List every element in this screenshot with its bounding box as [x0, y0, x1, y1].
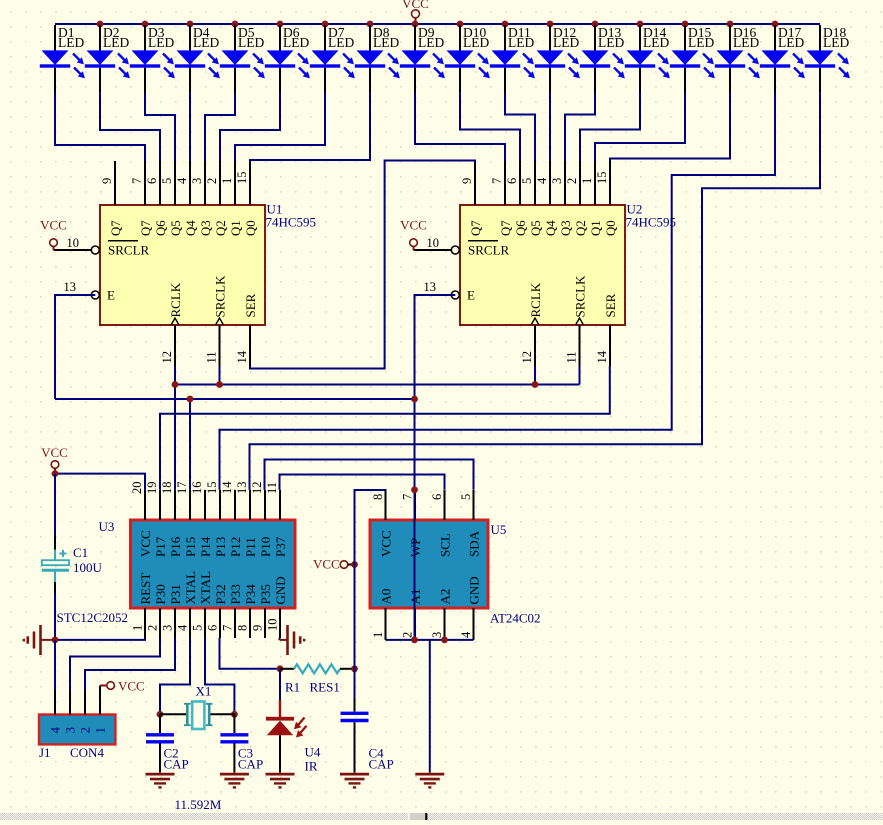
wire D15 to U2 pin 1 [595, 92, 685, 161]
shift register U1 74HC595 body [100, 205, 265, 325]
U5 pin 7 (WP) stub [401, 490, 424, 557]
U2 pin 2 (Q2) stub [565, 161, 588, 236]
U3 pin 12 (P10) stub [250, 482, 273, 558]
svg-text:P32: P32 [213, 584, 228, 604]
ground symbol under C2 [146, 772, 175, 788]
svg-text:Q3: Q3 [559, 220, 573, 236]
svg-text:A2: A2 [438, 589, 453, 605]
U5 pin 1 (A0) stub [371, 589, 394, 640]
wire D18 to U3 pin 13 [250, 92, 821, 490]
svg-text:14: 14 [595, 350, 609, 363]
svg-text:11.592M: 11.592M [175, 797, 222, 812]
svg-text:Q1: Q1 [589, 220, 603, 236]
LED D5 [220, 25, 265, 92]
svg-text:LED: LED [643, 35, 669, 50]
junction dots on clock net [172, 381, 539, 388]
junction dot VCC at U5 [351, 561, 358, 568]
junction dot U5 pin3 on rail [441, 637, 448, 644]
LED D14 [625, 25, 670, 92]
wire U1 pin11 down to clock net [219, 366, 221, 385]
wire VCC node down to C1 [54, 474, 56, 535]
svg-text:E: E [467, 288, 475, 303]
svg-text:C1: C1 [73, 545, 88, 560]
U3 pin 14 (P12) stub [220, 481, 243, 557]
svg-text:VCC: VCC [40, 218, 67, 233]
svg-text:4: 4 [535, 177, 549, 184]
svg-text:13: 13 [64, 280, 77, 294]
svg-text:1: 1 [580, 178, 594, 184]
LED D6 [265, 25, 310, 92]
svg-text:XTAL: XTAL [198, 571, 213, 605]
wire D9 to U2 pin 7 [415, 92, 505, 161]
svg-text:4: 4 [459, 631, 473, 638]
J1 pin 2 stub [78, 690, 93, 734]
svg-text:CON4: CON4 [70, 745, 104, 760]
wire clock net U1.12-U1.11-U2.12-U2.11 [175, 384, 580, 386]
U2 pin 13 E with bubble [424, 280, 476, 303]
svg-text:5: 5 [520, 178, 534, 184]
svg-text:P31: P31 [168, 584, 183, 604]
wire U5 rail down to ground [429, 640, 431, 772]
svg-text:9: 9 [460, 178, 474, 184]
svg-text:6: 6 [206, 625, 220, 631]
svg-text:19: 19 [145, 482, 159, 495]
wire U2 pin12 down to clock net [534, 366, 536, 385]
svg-text:6: 6 [430, 494, 444, 500]
U3 pin 16 (P14) stub [190, 482, 213, 558]
U2 pin 14 (SER) stub [595, 293, 618, 366]
svg-text:Q5: Q5 [529, 220, 543, 236]
svg-text:P34: P34 [243, 584, 258, 605]
svg-text:P13: P13 [213, 537, 228, 557]
U3 pin 19 (P17) stub [145, 482, 168, 558]
svg-text:R1: R1 [285, 680, 300, 695]
U5 pin 5 (SDA) stub [459, 490, 482, 557]
svg-text:Q7: Q7 [499, 220, 513, 236]
wire ground rail down to J1 pin 4 [54, 640, 56, 690]
junction dot E net at pin17 branch [187, 396, 194, 403]
wire D7 to U1 pin 1 [235, 92, 325, 161]
svg-text:VCC: VCC [41, 445, 68, 460]
svg-text:15: 15 [595, 172, 609, 185]
junction dot VCC/C1 node [52, 470, 59, 477]
U2 pin 9 (Q7) stub [460, 161, 483, 236]
svg-text:7: 7 [221, 625, 235, 631]
capacitor C2 CAP [146, 714, 174, 771]
microcontroller U3 STC12C2052 body [131, 520, 296, 608]
U3 pin 7 (P33) stub [221, 584, 244, 638]
resistor R1 RES1 [280, 664, 355, 673]
svg-text:RCLK: RCLK [168, 282, 183, 317]
svg-text:7: 7 [401, 494, 415, 500]
svg-text:3: 3 [430, 632, 444, 638]
svg-text:Q6: Q6 [154, 220, 168, 236]
svg-text:Q3: Q3 [199, 220, 213, 236]
svg-text:CAP: CAP [164, 757, 189, 772]
wire U3 pin19 to U2 SER pin14 [160, 366, 610, 490]
svg-text:LED: LED [823, 35, 849, 50]
svg-text:74HC595: 74HC595 [626, 215, 677, 230]
svg-text:P15: P15 [183, 537, 198, 557]
svg-text:IR: IR [305, 759, 318, 774]
junction dot U5 WP pin top [411, 486, 418, 493]
J1 pin 4 stub [48, 690, 63, 734]
svg-text:SRCLK: SRCLK [213, 275, 228, 318]
svg-text:U5: U5 [491, 522, 507, 537]
wire U2 E to WP column [415, 295, 456, 399]
wire U3 pin 10 to right ground [279, 638, 281, 640]
svg-text:LED: LED [688, 35, 714, 50]
U5 pin 6 (SCL) stub [430, 490, 453, 557]
svg-text:VCC: VCC [138, 530, 153, 557]
LED D11 [490, 25, 535, 92]
junction dot crystal right node [231, 711, 238, 718]
svg-text:1: 1 [93, 727, 108, 734]
svg-text:18: 18 [160, 482, 174, 495]
U2 pin 6 (Q6) stub [505, 161, 528, 236]
U5 pin 3 (A2) stub [430, 589, 453, 640]
svg-text:U4: U4 [305, 745, 321, 760]
U1 pin 11 (SRCLK) stub [205, 275, 228, 366]
svg-text:7: 7 [130, 178, 144, 184]
svg-text:LED: LED [553, 35, 579, 50]
wire E-net branch down to U3 pin17 [189, 399, 191, 490]
junction dot crystal left node [157, 711, 164, 718]
svg-text:11: 11 [265, 482, 279, 494]
LED D7 [310, 25, 355, 92]
junction dot R1/U4 node [277, 665, 284, 672]
U3 pin 13 (P11) stub [235, 482, 258, 558]
junction dot E net at WP column [411, 396, 418, 403]
U3 pin 5 (XTAL) stub [191, 571, 214, 638]
U2 pin 10 SRCLR with bubble and VCC [400, 218, 509, 258]
svg-text:14: 14 [220, 481, 234, 494]
svg-text:SRCLR: SRCLR [468, 243, 510, 258]
svg-text:A0: A0 [379, 589, 394, 605]
wire U3 pin12 to U5 SDA pin5 [265, 460, 474, 490]
wire WP column over U5 (redraw over box) [414, 490, 416, 640]
U1 pin 1 (Q1) stub [220, 161, 243, 236]
U2 pin 7 (Q7) stub [490, 161, 513, 236]
U2 pin 15 (Q0) stub [595, 161, 618, 236]
U3 pin 10 (GND) stub [266, 576, 289, 638]
svg-text:Q7: Q7 [469, 220, 483, 236]
svg-text:STC12C2052: STC12C2052 [57, 610, 129, 625]
svg-text:P37: P37 [273, 536, 288, 557]
junction dot ground rail [52, 637, 59, 644]
LED D17 [760, 25, 805, 92]
junction dots on VCC bus [97, 21, 779, 28]
wire D17 to U3 pin 15 [220, 92, 776, 490]
svg-text:LED: LED [418, 35, 444, 50]
shift register U2 74HC595 body [460, 205, 625, 325]
svg-text:Q6: Q6 [514, 220, 528, 236]
svg-text:Q7: Q7 [139, 220, 153, 236]
U1 pin 10 SRCLR with bubble and VCC [40, 218, 149, 258]
U2 pin 1 (Q1) stub [580, 161, 603, 236]
svg-text:9: 9 [251, 625, 265, 631]
svg-text:P10: P10 [258, 537, 273, 557]
svg-text:Q2: Q2 [214, 220, 228, 236]
LED D3 [130, 25, 175, 92]
LED D16 [715, 25, 760, 92]
ground symbol left of U3 [24, 625, 52, 655]
svg-text:3: 3 [190, 178, 204, 184]
svg-text:P11: P11 [243, 537, 258, 557]
U3 pin 18 (P16) stub [160, 482, 183, 558]
svg-text:J1: J1 [39, 745, 51, 760]
svg-text:Q5: Q5 [169, 220, 183, 236]
svg-text:74HC595: 74HC595 [266, 215, 317, 230]
svg-text:P30: P30 [153, 584, 168, 604]
svg-text:2: 2 [146, 625, 160, 631]
wire D8 to U1 pin 15 [250, 92, 370, 161]
LED D9 [400, 25, 445, 92]
wire U3 pin5 (XTAL) to crystal right node [205, 638, 234, 714]
svg-text:10: 10 [266, 619, 280, 632]
wire D2 to U1 pin 6 [100, 92, 160, 161]
LED D8 [355, 25, 400, 92]
wire ground rail to U3 pin 1 (REST) [52, 638, 145, 640]
svg-text:Q0: Q0 [244, 220, 258, 236]
wire U5 bottom rail A0-A1-A2-GND [386, 639, 474, 641]
svg-text:Q0: Q0 [604, 220, 618, 236]
wire U1 pin12 down to U3 pin18 [174, 366, 176, 490]
svg-text:VCC: VCC [379, 530, 394, 557]
svg-text:LED: LED [778, 35, 804, 50]
svg-text:REST: REST [138, 573, 153, 605]
U5 pin 8 (VCC) stub [371, 490, 394, 557]
svg-text:100U: 100U [73, 560, 103, 575]
infrared diode U4 IR [266, 669, 307, 772]
ground symbol right of U3 [280, 625, 305, 655]
U2 pin 3 (Q3) stub [550, 161, 573, 236]
ground symbol under U4 [266, 772, 295, 788]
U3 pin 17 (P15) stub [175, 482, 198, 558]
LED D4 [175, 25, 220, 92]
svg-text:P17: P17 [153, 536, 168, 557]
U2 pin 11 (SRCLK) stub [565, 275, 588, 366]
capacitor C4 CAP [341, 699, 369, 772]
svg-text:U3: U3 [99, 519, 115, 534]
wire D6 to U1 pin 2 [220, 92, 280, 161]
svg-text:LED: LED [238, 35, 264, 50]
svg-text:SCL: SCL [438, 533, 453, 557]
U1 pin 4 (Q4) stub [175, 161, 198, 236]
junction dot U5 pin2 on rail [411, 637, 418, 644]
svg-text:2: 2 [78, 727, 93, 734]
svg-text:LED: LED [148, 35, 174, 50]
svg-text:GND: GND [273, 576, 288, 604]
svg-text:LED: LED [463, 35, 489, 50]
svg-text:4: 4 [176, 624, 190, 631]
U3 pin 9 (P35) stub [251, 584, 274, 638]
svg-text:VCC: VCC [400, 218, 427, 233]
power symbol VCC at U3 pin 20 [41, 445, 68, 474]
connector J1 CON4 body [39, 715, 115, 745]
svg-text:12: 12 [160, 351, 174, 364]
wire D14 to U2 pin 2 [580, 92, 640, 161]
svg-text:9: 9 [100, 178, 114, 184]
LED D12 [535, 25, 580, 92]
wire J1 pin3 to U3 pin2 [70, 638, 160, 690]
svg-text:3: 3 [550, 178, 564, 184]
svg-text:Q2: Q2 [574, 220, 588, 236]
crystal X1 [160, 702, 234, 730]
svg-text:P12: P12 [228, 537, 243, 557]
LED D15 [670, 25, 715, 92]
U1 pin 15 (Q0) stub [235, 161, 258, 236]
U2 pin 4 (Q4) stub [535, 161, 558, 236]
svg-text:3: 3 [161, 625, 175, 631]
svg-text:CAP: CAP [238, 757, 263, 772]
svg-text:Q7: Q7 [109, 220, 123, 236]
svg-text:LED: LED [193, 35, 219, 50]
svg-text:LED: LED [733, 35, 759, 50]
svg-text:CAP: CAP [369, 757, 394, 772]
svg-text:6: 6 [505, 178, 519, 184]
wire C1 to ground rail [54, 594, 56, 640]
svg-text:14: 14 [235, 350, 249, 363]
wire D16 to U2 pin 15 [610, 92, 730, 161]
svg-text:4: 4 [48, 727, 63, 734]
svg-text:SER: SER [243, 293, 258, 317]
wire VCC column to U5 pin 8 [355, 490, 386, 699]
wire U3 pin6 (P32) to R1/U4 node [220, 638, 281, 669]
wire D3 to U1 pin 5 [145, 92, 175, 161]
svg-text:12: 12 [250, 482, 264, 495]
power symbol VCC at U5 [313, 557, 355, 572]
U1 pin 9 (Q7) stub [100, 161, 123, 236]
J1 pin 3 stub [63, 690, 78, 734]
wire D4 to U1 pin 4 [189, 92, 191, 161]
svg-text:X1: X1 [196, 684, 212, 699]
U3 pin 3 (P31) stub [161, 584, 184, 638]
svg-text:11: 11 [565, 351, 579, 363]
svg-text:16: 16 [190, 482, 204, 495]
svg-text:7: 7 [490, 178, 504, 184]
svg-text:LED: LED [283, 35, 309, 50]
wire U2 pin11 down to clock net [579, 366, 581, 385]
svg-text:6: 6 [145, 178, 159, 184]
svg-text:RES1: RES1 [310, 680, 340, 695]
wire VCC to U3 pin 20 [55, 474, 145, 490]
LED D18 [805, 25, 850, 92]
eeprom U5 AT24C02 body [370, 520, 488, 608]
U3 pin 2 (P30) stub [146, 584, 169, 638]
U1 pin 14 (SER) stub [235, 293, 258, 366]
U3 pin 4 (XTAL) stub [176, 571, 199, 638]
svg-text:1: 1 [371, 632, 385, 638]
svg-text:LED: LED [508, 35, 534, 50]
U5 pin 2 (A1) stub [401, 589, 424, 640]
ground symbol under C3 [220, 772, 249, 788]
svg-text:P14: P14 [198, 536, 213, 557]
svg-text:15: 15 [235, 172, 249, 185]
svg-text:4: 4 [175, 177, 189, 184]
svg-text:2: 2 [565, 178, 579, 184]
U3 pin 11 (P37) stub [265, 482, 288, 557]
svg-text:LED: LED [598, 35, 624, 50]
wire D5 to U1 pin 3 [205, 92, 235, 161]
U1 pin 13 E with bubble [64, 280, 116, 303]
U3 pin 20 (VCC) stub [130, 482, 153, 558]
svg-text:20: 20 [130, 482, 144, 495]
svg-text:P16: P16 [168, 536, 183, 557]
capacitor C3 CAP [220, 714, 248, 771]
U5 pin 4 (GND) stub [459, 576, 482, 640]
svg-text:1: 1 [131, 625, 145, 631]
wire J1 pin2 to U3 pin3 [85, 638, 175, 690]
U3 pin 1 (REST) stub [131, 573, 154, 638]
U1 pin 2 (Q2) stub [205, 161, 228, 236]
wire D10 to U2 pin 6 [460, 92, 520, 161]
scrollbar track at bottom [0, 813, 883, 820]
svg-text:P35: P35 [258, 584, 273, 604]
svg-text:10: 10 [67, 236, 80, 250]
svg-text:RCLK: RCLK [528, 282, 543, 317]
wire D11 to U2 pin 5 [505, 92, 535, 161]
power symbol VCC (top bus) [402, 0, 429, 24]
svg-text:LED: LED [103, 35, 129, 50]
svg-text:E: E [107, 288, 115, 303]
svg-text:2: 2 [205, 178, 219, 184]
power symbol VCC at J1 pin 1 [100, 679, 145, 694]
junction dot R1 right at VCC column [351, 665, 358, 672]
svg-text:LED: LED [373, 35, 399, 50]
U1 pin 3 (Q3) stub [190, 161, 213, 236]
svg-text:VCC: VCC [313, 557, 340, 572]
LED D10 [445, 25, 490, 92]
ground symbol under C4 [340, 772, 369, 788]
svg-text:13: 13 [424, 280, 437, 294]
wire U1 E to E-net [55, 295, 95, 399]
U2 pin 5 (Q5) stub [520, 161, 543, 236]
svg-text:LED: LED [58, 35, 84, 50]
wire E net to U3 pin17 [55, 398, 415, 400]
svg-text:AT24C02: AT24C02 [490, 611, 541, 626]
svg-text:SER: SER [603, 293, 618, 317]
LED D2 [85, 25, 130, 92]
svg-text:SDA: SDA [467, 530, 482, 557]
svg-text:P33: P33 [228, 584, 243, 604]
svg-text:10: 10 [427, 236, 440, 250]
wire U3 pin4 (XTAL) to crystal left node [160, 638, 190, 714]
svg-text:XTAL: XTAL [183, 571, 198, 605]
wire VCC bus [55, 23, 820, 25]
U3 pin 8 (P34) stub [236, 584, 259, 638]
svg-text:15: 15 [205, 482, 219, 495]
wire U1 SER pin14 to U2 pin9 (cascade) [250, 161, 475, 369]
capacitor C1 100U (polarized) [42, 535, 69, 594]
U1 pin 12 (RCLK) stub [160, 282, 183, 366]
wire D12 to U2 pin 4 [549, 92, 551, 161]
LED D1 [40, 25, 85, 92]
svg-text:8: 8 [236, 625, 250, 631]
svg-text:SRCLR: SRCLR [108, 243, 150, 258]
svg-text:13: 13 [235, 482, 249, 495]
U1 pin 5 (Q5) stub [160, 161, 183, 236]
wire WP column (U2 E / E-net / U5 WP / U5 A1) [414, 295, 416, 640]
svg-text:3: 3 [63, 727, 78, 734]
svg-text:12: 12 [520, 351, 534, 364]
U1 pin 6 (Q6) stub [145, 161, 168, 236]
svg-text:5: 5 [160, 178, 174, 184]
svg-text:LED: LED [328, 35, 354, 50]
svg-text:Q4: Q4 [184, 220, 198, 236]
svg-text:5: 5 [459, 494, 473, 500]
U1 pin 7 (Q7) stub [130, 161, 153, 236]
